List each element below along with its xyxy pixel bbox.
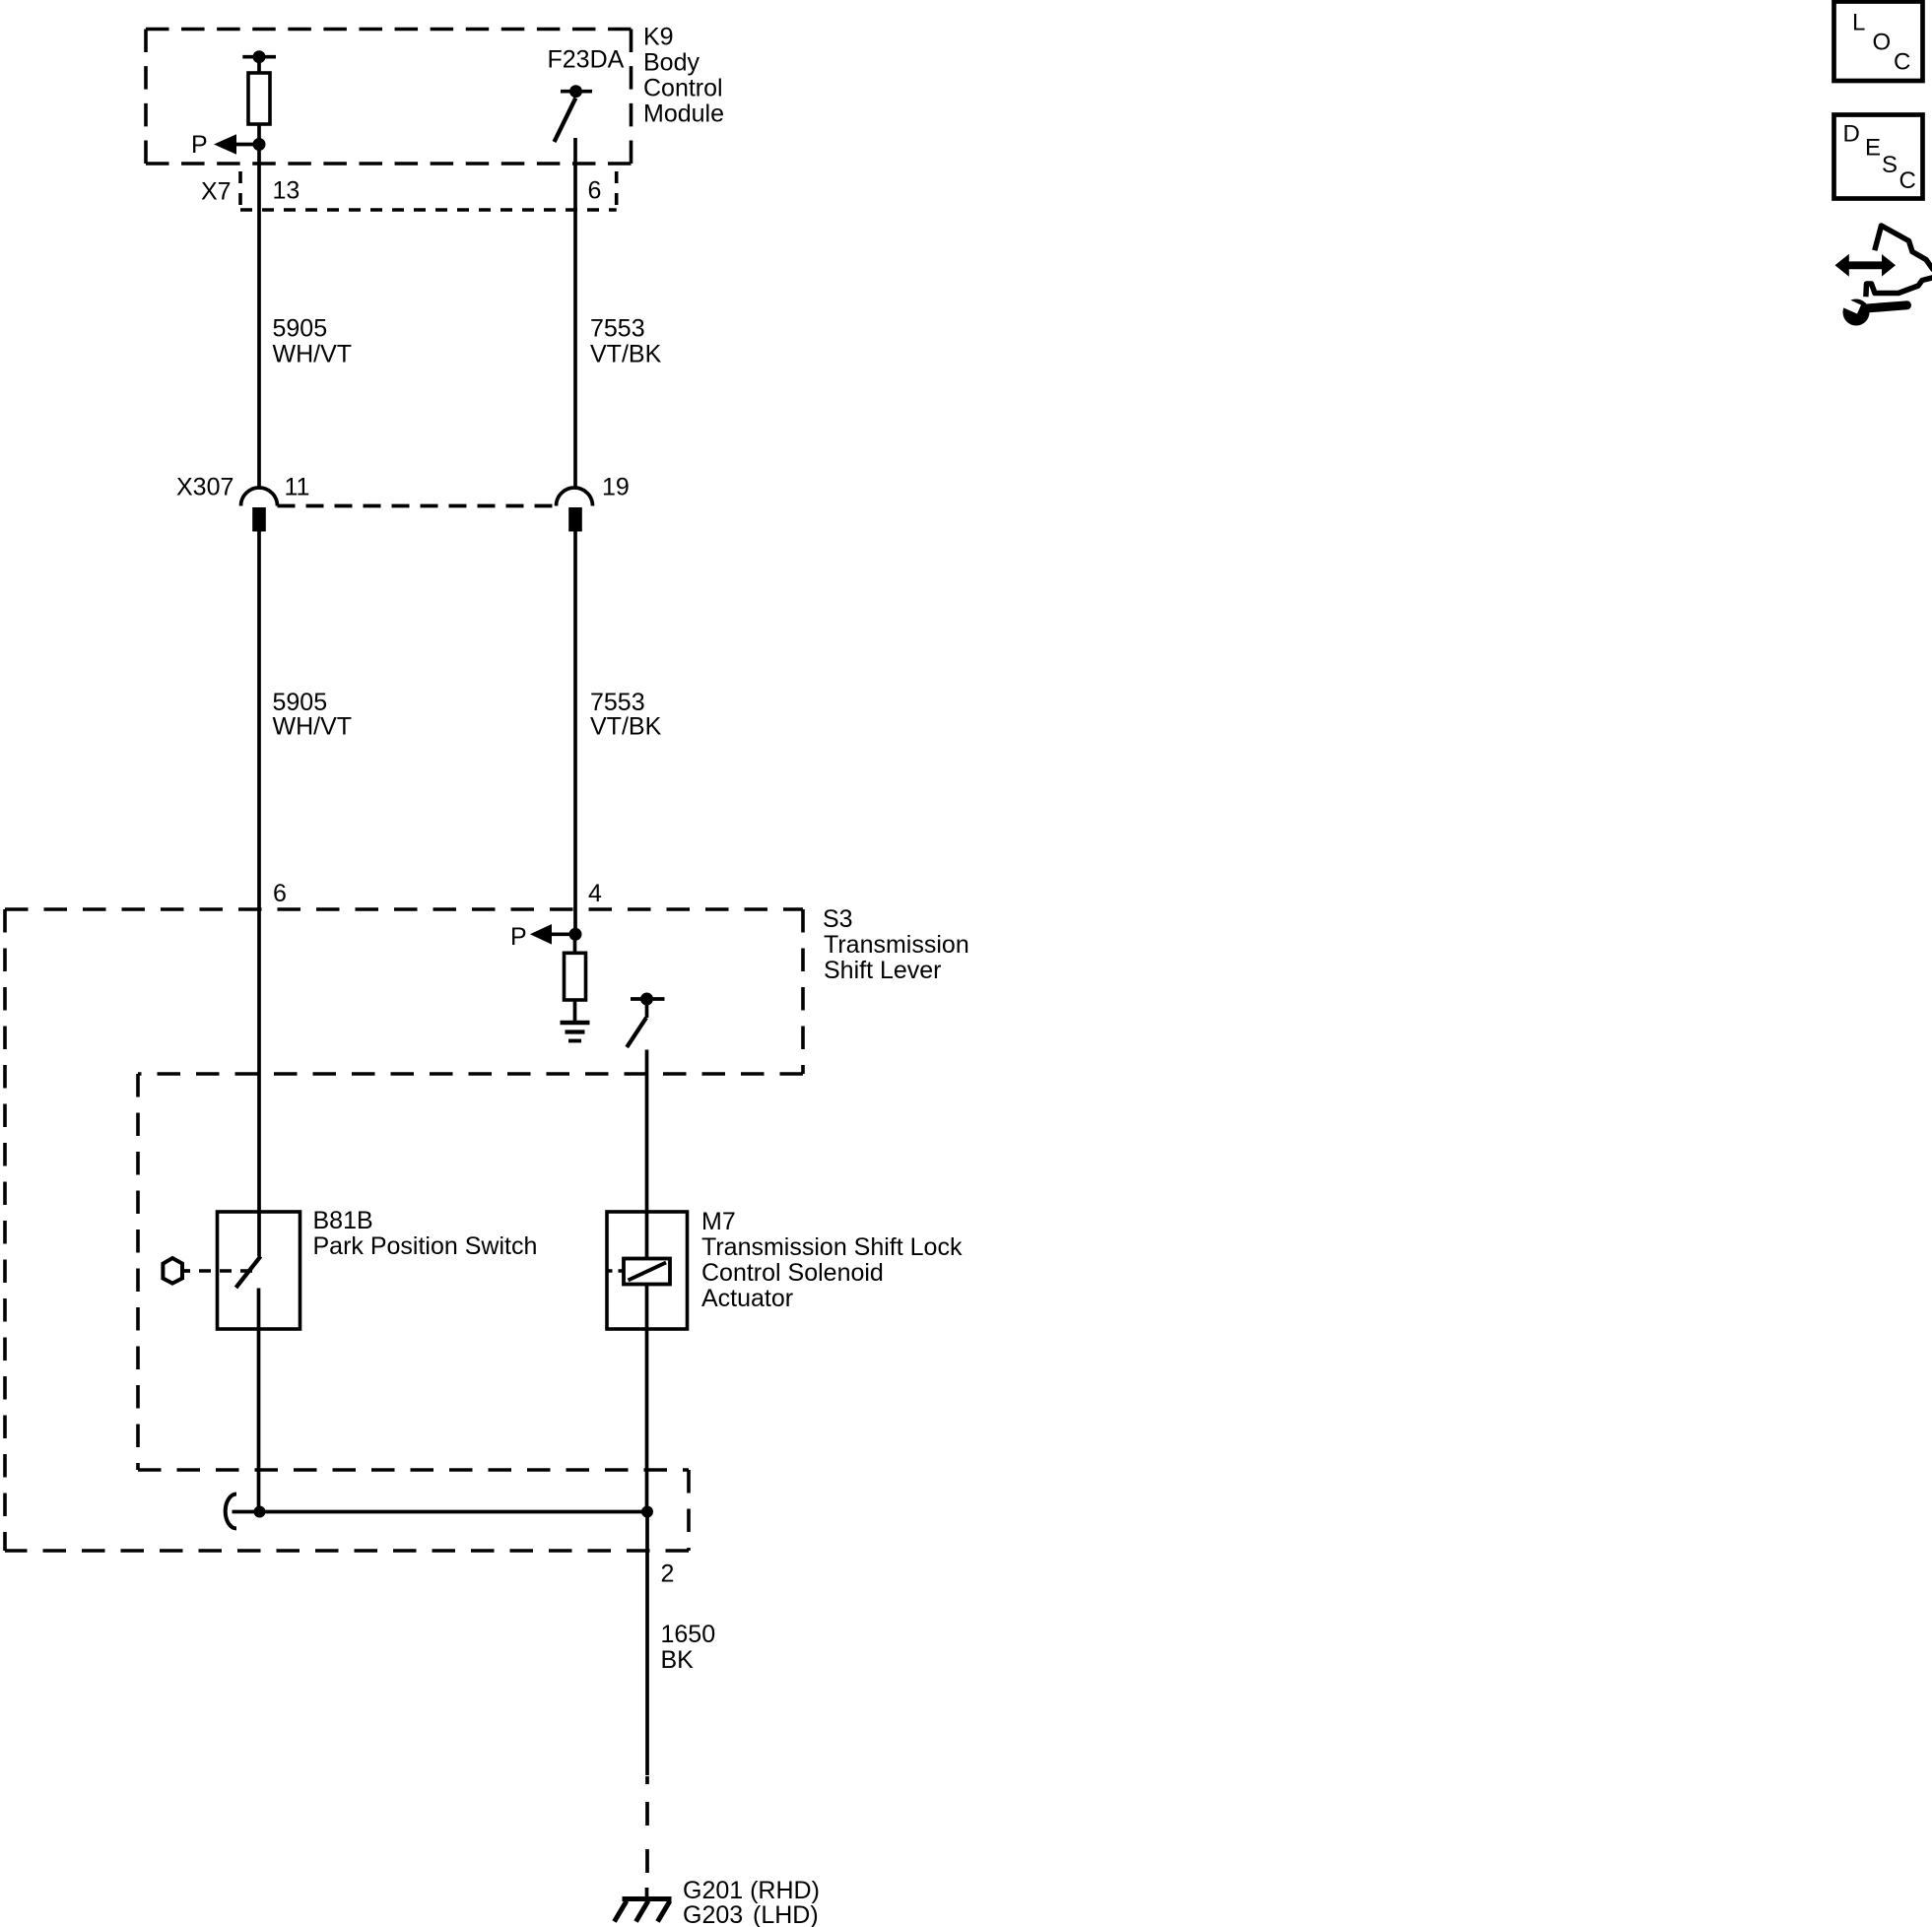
svg-text:S: S	[1882, 152, 1898, 178]
unterminated lead bracket	[226, 1495, 236, 1529]
P signal arrow (BCM)	[214, 134, 266, 155]
S3 Transmission Shift Lever assembly boundary (stepped dashed outline)	[5, 909, 803, 1551]
dashed wire to ground	[645, 1776, 649, 1899]
ground G201/G203	[615, 1899, 672, 1922]
resistor (BCM pull-up)	[248, 57, 270, 145]
wire: BCM pin 13 down to X307	[257, 145, 261, 489]
B81B Park Position Switch box	[218, 1212, 300, 1329]
LOC hyperlink box	[1834, 2, 1923, 82]
connector X307	[176, 474, 630, 501]
wire: X307 pin 11 down to S3 pin 6 and on to B81B	[257, 532, 261, 1213]
M7 solenoid symbol	[608, 1212, 670, 1512]
svg-text:Transmission Shift Lock: Transmission Shift Lock	[701, 1233, 963, 1261]
X307 terminals	[252, 507, 266, 532]
connector label X7	[201, 177, 601, 206]
svg-text:C: C	[1899, 167, 1916, 194]
svg-text:BK: BK	[661, 1646, 695, 1674]
wire label 5905 WH/VT (lower)	[273, 689, 662, 741]
svg-text:6: 6	[273, 880, 287, 907]
hex nut mechanical actuator	[163, 1258, 254, 1284]
node: BCM internal supply stub	[242, 50, 276, 63]
svg-text:VT/BK: VT/BK	[590, 341, 662, 368]
wire: X307 pin 19 down to S3 pin 4	[573, 532, 577, 935]
svg-text:C: C	[1894, 49, 1910, 76]
diagnostic tool icon: double arrow	[1835, 254, 1897, 277]
svg-text:G203: G203	[683, 1901, 743, 1927]
wire: BCM pin 6 down to X307	[573, 138, 577, 488]
svg-text:6: 6	[588, 177, 602, 205]
svg-text:WH/VT: WH/VT	[273, 713, 353, 741]
B81B switch internals	[236, 1212, 261, 1329]
wire label 5905 WH/VT (upper)	[273, 314, 662, 367]
svg-text:11: 11	[285, 474, 310, 501]
K9 label	[643, 24, 724, 128]
DESC hyperlink box	[1834, 115, 1923, 199]
svg-text:VT/BK: VT/BK	[590, 713, 662, 741]
svg-text:Actuator: Actuator	[701, 1285, 793, 1312]
svg-text:2: 2	[661, 1561, 675, 1588]
svg-text:5905: 5905	[273, 314, 328, 342]
svg-text:Control Solenoid: Control Solenoid	[701, 1259, 884, 1287]
diagnostic tool icon: vehicle outline	[1866, 226, 1932, 295]
svg-text:Body: Body	[643, 49, 700, 77]
switch (S3 park position contact)	[627, 993, 664, 1048]
svg-text:Park Position Switch: Park Position Switch	[313, 1232, 538, 1260]
svg-text:D: D	[1843, 121, 1860, 148]
pin 2	[661, 1561, 716, 1675]
svg-text:O: O	[1873, 30, 1892, 56]
svg-text:B81B: B81B	[313, 1207, 373, 1234]
svg-text:Module: Module	[643, 100, 724, 128]
wire: B81B output down to splice	[257, 1329, 261, 1512]
svg-text:G201 (RHD): G201 (RHD)	[683, 1877, 820, 1904]
B81B labels	[313, 1207, 538, 1260]
svg-text:P: P	[510, 923, 527, 951]
wire: S3 switch to M7	[645, 1050, 649, 1213]
svg-text:Transmission: Transmission	[824, 931, 969, 959]
svg-text:K9: K9	[643, 24, 674, 51]
pin 6 (S3)	[273, 880, 602, 907]
svg-text:Shift Lever: Shift Lever	[824, 957, 942, 984]
wire: splice down through pin 2	[645, 1512, 649, 1776]
svg-text:S3: S3	[823, 905, 853, 933]
svg-text:7553: 7553	[590, 314, 645, 342]
svg-text:Control: Control	[643, 75, 723, 102]
svg-text:X7: X7	[201, 178, 232, 206]
svg-text:1650: 1650	[661, 1621, 716, 1648]
M7 labels	[701, 1208, 963, 1312]
svg-text:L: L	[1852, 10, 1865, 36]
svg-text:P: P	[191, 131, 208, 159]
svg-text:F23DA: F23DA	[548, 46, 625, 74]
svg-text:M7: M7	[701, 1208, 736, 1235]
K9 Body Control Module box	[146, 30, 632, 165]
X307 halves: arcs + dashed mate line	[241, 488, 593, 505]
svg-text:13: 13	[273, 177, 300, 205]
switch F23DA (BCM high-side driver)	[548, 46, 625, 74]
connector X7 box	[240, 171, 617, 210]
P signal arrow (S3)	[530, 924, 582, 945]
svg-text:4: 4	[588, 880, 602, 907]
svg-text:(LHD): (LHD)	[753, 1901, 819, 1927]
svg-text:WH/VT: WH/VT	[273, 341, 353, 368]
svg-text:X307: X307	[176, 474, 233, 501]
diagnostic tool icon: wrench	[1835, 296, 1907, 326]
splice wire (internal joint)	[226, 1495, 653, 1529]
svg-text:19: 19	[602, 474, 630, 501]
M7 Transmission Shift Lock Control Solenoid Actuator box	[607, 1212, 688, 1329]
S3 labels	[823, 905, 969, 984]
ground (S3 internal)	[561, 1023, 590, 1041]
svg-text:E: E	[1865, 135, 1881, 162]
resistor (S3)	[565, 934, 586, 1021]
